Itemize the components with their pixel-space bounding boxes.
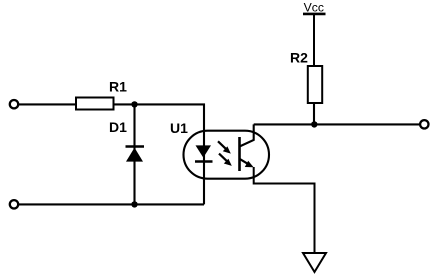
ground [303,253,326,272]
terminal input bottom-left [10,200,18,208]
wire collector node to output [254,123,420,125]
emitter lead with arrow [240,159,251,165]
svg-text:D1: D1 [109,119,127,135]
node B junction dot [131,201,137,207]
light arrow 2 [219,154,232,166]
wire node A down (D1 branch) [133,104,135,204]
optocoupler U1 body outline [184,131,270,179]
wire R1 to node A and to U1 anode [114,104,205,131]
light arrow 1 [218,141,231,153]
svg-text:Vcc: Vcc [304,1,324,15]
terminal output [420,120,428,128]
terminal input top-left [10,100,18,108]
wire Vcc to R2 [313,15,315,67]
wire emitter to ground rail [254,167,315,253]
phototransistor Q inside U1: base bar [238,137,241,171]
wire bottom terminal to U1 cathode [19,203,204,205]
svg-text:R2: R2 [290,50,308,66]
svg-text:U1: U1 [170,120,188,136]
diode D1 [126,147,145,162]
wire R2 to node C [313,103,315,124]
svg-text:R1: R1 [109,79,127,95]
resistor R1 [76,98,114,110]
wire LED cathode lead [203,131,205,204]
LED inside U1 [195,145,213,161]
collector lead [240,124,254,146]
node C junction dot [311,121,317,127]
wire terminal to R1 [19,103,76,105]
Vcc rail bar [303,13,326,16]
node A junction dot [131,101,137,107]
resistor R2 [308,66,322,103]
